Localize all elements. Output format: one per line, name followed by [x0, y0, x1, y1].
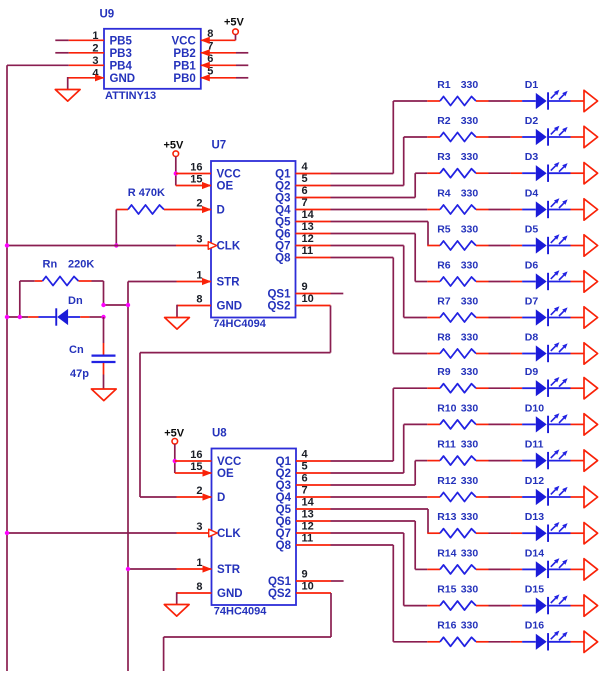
svg-text:Q5: Q5 [276, 504, 292, 516]
ground at U7 pin 8 [165, 318, 190, 330]
svg-text:D2: D2 [525, 115, 539, 127]
svg-text:330: 330 [461, 402, 479, 414]
LED D4 [511, 187, 584, 218]
port out 1 [584, 90, 598, 111]
svg-text:R6: R6 [437, 259, 451, 271]
wire U9 pin 6 [200, 62, 248, 69]
svg-text:+5V: +5V [164, 140, 185, 152]
svg-text:330: 330 [461, 79, 479, 91]
power +5V at U9 [224, 16, 245, 40]
wire U9 pin 7 [200, 49, 248, 56]
svg-text:7: 7 [302, 485, 308, 497]
svg-text:Dn: Dn [68, 295, 83, 307]
wire Q3 to R3 [296, 173, 428, 197]
svg-text:16: 16 [190, 162, 202, 174]
LED D6 [511, 259, 584, 290]
wire U9 pin 1 PB5 [55, 39, 104, 41]
svg-text:4: 4 [302, 449, 309, 461]
wire Q5 to R13 [296, 509, 428, 533]
wire U9 pin 3 PB4 to left bus [7, 64, 104, 66]
svg-text:R15: R15 [437, 584, 456, 596]
wire U7 pin 8 GND [177, 305, 211, 318]
node junction bus/diode row [5, 315, 9, 319]
svg-text:330: 330 [461, 620, 479, 632]
resistor R7 330 [427, 295, 510, 322]
svg-text:PB2: PB2 [173, 48, 195, 60]
wire U8 pin 16 VCC [175, 460, 212, 462]
svg-text:D4: D4 [525, 187, 539, 199]
LED D7 [511, 295, 584, 326]
wire Q2 to R2 [296, 137, 428, 186]
svg-text:PB0: PB0 [173, 73, 195, 85]
wire U8 pin 1 STR [128, 565, 212, 572]
node junction +5V/VCC U7 [174, 171, 178, 175]
svg-text:R12: R12 [437, 475, 456, 487]
wire Q2 to R10 [296, 424, 427, 473]
svg-text:GND: GND [110, 73, 136, 85]
svg-text:9: 9 [302, 281, 308, 293]
resistor R14 330 [427, 547, 510, 574]
LED D15 [511, 584, 584, 615]
svg-text:16: 16 [190, 449, 202, 461]
svg-text:Q6: Q6 [276, 516, 291, 528]
svg-text:2: 2 [196, 485, 202, 497]
svg-text:1: 1 [196, 270, 202, 282]
svg-text:+5V: +5V [224, 16, 245, 28]
svg-text:GND: GND [217, 588, 243, 600]
wire Q7 to R15 [296, 533, 427, 606]
LED D9 [511, 366, 584, 397]
resistor Rn 220K [20, 259, 104, 286]
svg-text:12: 12 [302, 233, 314, 245]
svg-text:330: 330 [461, 115, 479, 127]
svg-text:Q3: Q3 [275, 193, 290, 205]
svg-text:11: 11 [302, 245, 314, 257]
resistor R4 330 [427, 187, 510, 214]
svg-text:D: D [217, 492, 225, 504]
svg-text:330: 330 [461, 223, 479, 235]
node junction bus/CLK U7 [5, 243, 9, 247]
svg-text:ATTINY13: ATTINY13 [105, 90, 156, 102]
LED D14 [511, 547, 584, 578]
wire STR bus vertical [127, 282, 129, 672]
node junction diode/Cn [101, 315, 105, 319]
svg-text:R4: R4 [437, 187, 451, 199]
capacitor Cn 47p [69, 317, 116, 389]
port out 4 [584, 199, 598, 220]
svg-text:D10: D10 [525, 402, 544, 414]
svg-text:330: 330 [461, 259, 479, 271]
wire U8 pin 3 CLK [7, 529, 217, 537]
svg-text:QS2: QS2 [268, 588, 291, 600]
node junction bus/CLK U8 [5, 531, 9, 535]
resistor R13 330 [427, 511, 510, 538]
svg-text:R3: R3 [437, 151, 451, 163]
svg-text:PB3: PB3 [110, 48, 132, 60]
svg-text:14: 14 [302, 497, 315, 509]
wire U7 QS1 stub [296, 293, 344, 295]
power +5V at U8 [164, 428, 185, 474]
LED D13 [511, 511, 584, 542]
U9 pin numbers 1 2 3 4 [92, 30, 99, 80]
port out 13 [584, 523, 598, 544]
svg-text:12: 12 [302, 521, 314, 533]
svg-text:6: 6 [302, 185, 308, 197]
svg-text:VCC: VCC [217, 456, 241, 468]
svg-text:14: 14 [302, 209, 315, 221]
svg-text:R1: R1 [437, 79, 451, 91]
svg-text:Q1: Q1 [275, 169, 291, 181]
port out 3 [584, 163, 598, 184]
node junction R470K/CLK [114, 243, 118, 247]
svg-text:330: 330 [461, 584, 479, 596]
svg-text:D12: D12 [525, 475, 544, 487]
svg-text:Q2: Q2 [276, 468, 291, 480]
svg-text:U8: U8 [212, 428, 227, 440]
resistor R 470K [116, 187, 211, 214]
svg-text:D15: D15 [525, 584, 544, 596]
U7 left pin numbers 16 15 2 3 1 8 [190, 162, 202, 306]
svg-text:330: 330 [461, 187, 479, 199]
svg-text:330: 330 [461, 366, 479, 378]
svg-text:10: 10 [302, 581, 314, 593]
svg-text:11: 11 [302, 533, 314, 545]
port out 8 [584, 343, 598, 364]
svg-text:R9: R9 [437, 366, 451, 378]
svg-text:R8: R8 [437, 331, 451, 343]
svg-text:D1: D1 [525, 79, 539, 91]
wire Q8 to R8 [296, 258, 428, 354]
svg-text:7: 7 [302, 197, 308, 209]
svg-text:330: 330 [461, 547, 479, 559]
svg-text:STR: STR [217, 277, 241, 289]
svg-text:Q4: Q4 [275, 205, 291, 217]
node junction +5V/VCC U8 [173, 459, 177, 463]
svg-text:74HC4094: 74HC4094 [213, 318, 266, 330]
svg-text:R16: R16 [437, 620, 456, 632]
resistor R1 330 [427, 79, 510, 106]
resistor R2 330 [427, 115, 510, 142]
svg-text:D11: D11 [525, 439, 544, 451]
svg-text:330: 330 [461, 475, 479, 487]
svg-text:U7: U7 [212, 140, 227, 152]
node junction bus/STR U8 [126, 567, 130, 571]
U8 right pin numbers [302, 449, 315, 593]
svg-text:OE: OE [217, 181, 234, 193]
IC U9 ATTINY13 body [100, 9, 201, 103]
svg-text:3: 3 [196, 521, 202, 533]
svg-text:4: 4 [302, 161, 309, 173]
svg-text:330: 330 [461, 151, 479, 163]
resistor R15 330 [427, 584, 510, 611]
svg-text:47p: 47p [70, 368, 89, 380]
svg-text:13: 13 [302, 221, 314, 233]
svg-text:10: 10 [302, 293, 314, 305]
ground at U9 pin 4 [55, 90, 80, 102]
LED D11 [511, 439, 584, 470]
resistor R6 330 [427, 259, 510, 286]
wire U8 QS1 stub [296, 580, 344, 582]
resistor R8 330 [427, 331, 510, 358]
port out 2 [584, 126, 598, 147]
node junction link right STR bus [126, 303, 130, 307]
wire Q8 to R16 [296, 545, 427, 642]
svg-text:VCC: VCC [172, 35, 196, 47]
svg-text:15: 15 [190, 461, 202, 473]
LED D10 [511, 402, 584, 433]
wire U7 pin 16 VCC [176, 173, 211, 175]
LED D5 [511, 223, 584, 254]
svg-text:6: 6 [302, 473, 308, 485]
port out 12 [584, 486, 598, 507]
wire Q4 to R12 [296, 496, 427, 498]
port out 16 [584, 631, 598, 652]
wire Q7 to R7 [296, 246, 428, 318]
port out 9 [584, 378, 598, 399]
resistor R3 330 [427, 151, 510, 178]
svg-text:Cn: Cn [69, 344, 84, 356]
wire U7 pin 3 CLK [7, 242, 217, 250]
LED D8 [511, 331, 584, 362]
svg-text:PB4: PB4 [110, 60, 133, 72]
resistor R16 330 [427, 620, 510, 647]
diode Dn [7, 295, 104, 326]
wire U7 pin 1 STR [128, 278, 212, 285]
port out 7 [584, 307, 598, 328]
svg-text:Q8: Q8 [275, 253, 291, 265]
U7 right pin numbers [302, 161, 315, 305]
LED D16 [511, 620, 584, 651]
svg-text:QS1: QS1 [267, 289, 291, 301]
node junction Rn/diode row [18, 315, 22, 319]
svg-text:VCC: VCC [217, 169, 241, 181]
resistor R5 330 [427, 223, 510, 250]
port out 15 [584, 595, 598, 616]
wire Q1 to R9 [296, 388, 427, 461]
IC U8 74HC4094 body [212, 428, 297, 618]
svg-text:330: 330 [461, 511, 479, 523]
wire Q6 to R6 [296, 234, 428, 282]
svg-text:D: D [217, 205, 225, 217]
port out 10 [584, 414, 598, 435]
svg-text:OE: OE [217, 468, 234, 480]
svg-text:QS2: QS2 [267, 301, 290, 313]
svg-text:QS1: QS1 [268, 576, 292, 588]
svg-text:+5V: +5V [164, 428, 185, 440]
wire R470K to CLK net [115, 210, 117, 246]
svg-text:PB1: PB1 [173, 60, 196, 72]
port out 14 [584, 559, 598, 580]
svg-text:Q7: Q7 [275, 241, 290, 253]
svg-text:R5: R5 [437, 223, 451, 235]
svg-text:Q6: Q6 [275, 229, 290, 241]
wire U8 QS2 off-page [164, 593, 331, 671]
ground at U8 pin 8 [164, 605, 189, 617]
wire U7 QS2 to U8 D [140, 306, 331, 501]
wire Rn right vertical [103, 281, 105, 305]
IC U7 74HC4094 body [211, 140, 296, 330]
svg-text:330: 330 [461, 439, 479, 451]
wire link to STR bus [104, 304, 129, 306]
wire Q4 to R4 [296, 209, 428, 211]
svg-text:D9: D9 [525, 366, 539, 378]
U9 pin numbers 8 7 6 5 [207, 28, 213, 78]
svg-text:STR: STR [217, 564, 241, 576]
wire U8 pin 8 GND [177, 592, 212, 604]
svg-text:R 470K: R 470K [128, 187, 165, 199]
LED D12 [511, 475, 584, 506]
svg-text:Q8: Q8 [276, 540, 292, 552]
svg-text:D6: D6 [525, 259, 539, 271]
wire Q1 to R1 [296, 101, 428, 174]
svg-text:330: 330 [461, 331, 479, 343]
svg-text:GND: GND [217, 301, 243, 313]
node junction link left [101, 303, 105, 307]
wire U7 pin 15 OE [176, 182, 212, 189]
svg-text:1: 1 [196, 557, 202, 569]
svg-text:5: 5 [302, 173, 308, 185]
svg-text:5: 5 [302, 461, 308, 473]
wire left bus vertical from U9 PB4 [6, 65, 8, 671]
svg-text:R14: R14 [437, 547, 456, 559]
U8 left pin numbers 16 15 2 3 1 8 [190, 449, 202, 593]
svg-text:R10: R10 [437, 402, 456, 414]
wire U9 pin 4 GND [68, 74, 105, 89]
svg-text:D16: D16 [525, 620, 544, 632]
svg-text:D13: D13 [525, 511, 544, 523]
svg-text:15: 15 [190, 174, 202, 186]
wire Q3 to R11 [296, 461, 427, 485]
wire U9 pin 5 [200, 74, 248, 81]
svg-text:Q5: Q5 [275, 217, 291, 229]
wire Q5 to R5 [296, 222, 429, 246]
svg-text:Q7: Q7 [276, 528, 291, 540]
svg-text:330: 330 [461, 295, 479, 307]
svg-text:D14: D14 [525, 547, 544, 559]
port out 5 [584, 235, 598, 256]
svg-text:R7: R7 [437, 295, 451, 307]
power +5V at U7 [164, 140, 185, 186]
resistor R11 330 [427, 439, 510, 466]
svg-text:D8: D8 [525, 331, 539, 343]
svg-text:U9: U9 [100, 9, 115, 21]
svg-text:D3: D3 [525, 151, 539, 163]
svg-text:Q3: Q3 [276, 480, 291, 492]
wire U8 pin 15 OE [175, 469, 212, 476]
svg-text:R13: R13 [437, 511, 456, 523]
wire U9 pin 8 VCC from +5V [200, 37, 235, 44]
svg-text:9: 9 [302, 569, 308, 581]
resistor R9 330 [427, 366, 510, 393]
svg-text:D7: D7 [525, 295, 539, 307]
resistor R12 330 [427, 475, 510, 502]
resistor R10 330 [427, 402, 510, 429]
svg-text:Q4: Q4 [276, 492, 292, 504]
svg-text:R2: R2 [437, 115, 451, 127]
svg-text:3: 3 [196, 234, 202, 246]
svg-text:74HC4094: 74HC4094 [214, 605, 267, 617]
wire U9 pin 2 PB3 [55, 52, 104, 54]
port out 6 [584, 271, 598, 292]
svg-text:CLK: CLK [217, 528, 241, 540]
LED D3 [511, 151, 584, 182]
svg-text:2: 2 [196, 198, 202, 210]
LED D1 [511, 79, 584, 110]
svg-text:8: 8 [196, 294, 202, 306]
svg-text:PB5: PB5 [110, 35, 133, 47]
wire Rn left to diode row [19, 281, 21, 317]
wire Q6 to R14 [296, 521, 427, 569]
svg-text:R11: R11 [437, 439, 456, 451]
svg-text:Q1: Q1 [276, 456, 292, 468]
port out 11 [584, 450, 598, 471]
LED D2 [511, 115, 584, 146]
svg-text:8: 8 [196, 581, 202, 593]
svg-text:Rn: Rn [43, 259, 58, 271]
ground at Cn [91, 389, 116, 401]
svg-text:220K: 220K [68, 259, 94, 271]
svg-text:CLK: CLK [217, 241, 241, 253]
svg-text:Q2: Q2 [275, 181, 290, 193]
svg-text:13: 13 [302, 509, 314, 521]
svg-text:D5: D5 [525, 223, 539, 235]
